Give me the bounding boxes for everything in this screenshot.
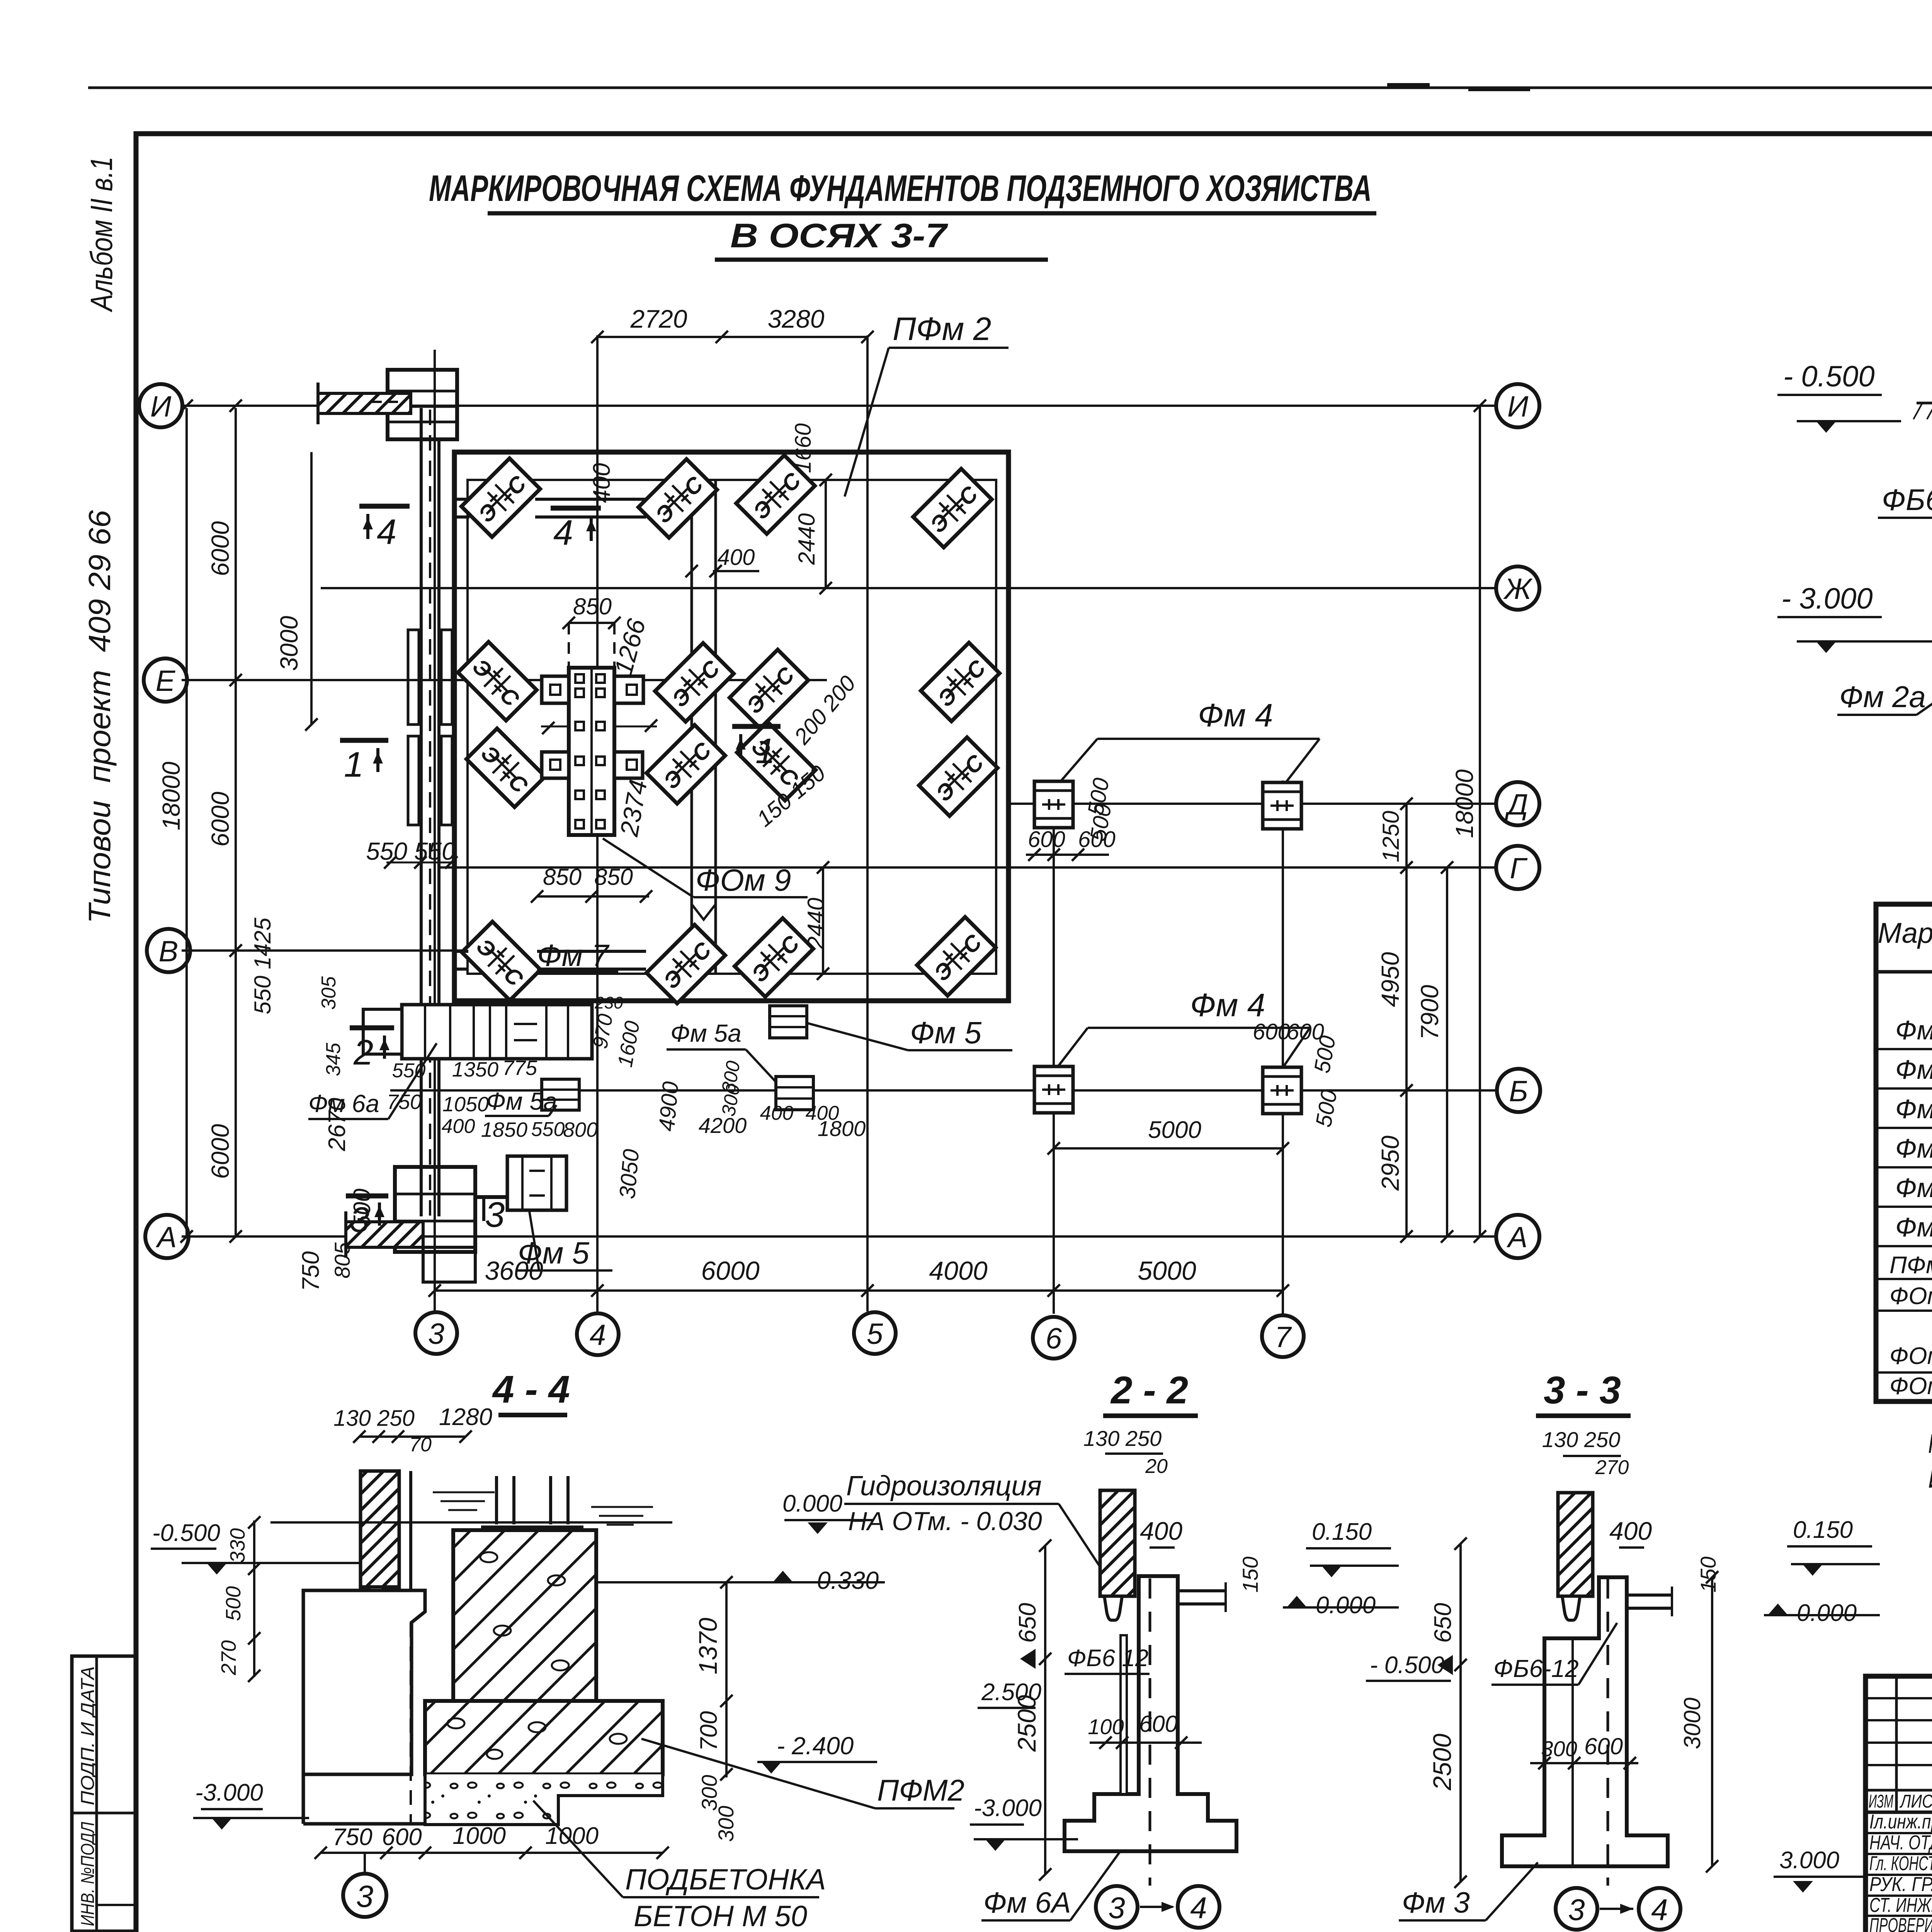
svg-text:Фм 5а: Фм 5а <box>670 1019 742 1047</box>
svg-text:3.000: 3.000 <box>1779 1847 1839 1874</box>
svg-text:20: 20 <box>1145 1455 1168 1478</box>
svg-text:18000: 18000 <box>157 762 185 830</box>
svg-text:750: 750 <box>387 1090 422 1114</box>
svg-text:0.000: 0.000 <box>782 1490 842 1517</box>
left margin stamp <box>72 1656 136 1931</box>
svg-text:300: 300 <box>714 1806 738 1842</box>
pedestal <box>1502 1577 1668 1866</box>
top dimension chain <box>597 336 867 338</box>
svg-text:850: 850 <box>543 864 582 890</box>
svg-text:7: 7 <box>1275 1321 1292 1354</box>
svg-text:-3.000: -3.000 <box>195 1779 263 1806</box>
svg-text:700: 700 <box>696 1711 722 1751</box>
svg-text:6000: 6000 <box>206 791 234 847</box>
Fm5 lower square <box>507 1156 566 1210</box>
svg-text:100: 100 <box>1088 1714 1124 1739</box>
svg-text:130 250: 130 250 <box>1542 1427 1620 1452</box>
axis circles left <box>139 384 190 1258</box>
svg-text:4000: 4000 <box>929 1256 987 1286</box>
svg-text:Б: Б <box>1509 1075 1528 1108</box>
name rows <box>1866 1832 1932 1834</box>
Fm5a small squares <box>542 1079 579 1110</box>
svg-text:150: 150 <box>1238 1556 1262 1592</box>
svg-text:Марка: Марка <box>1878 917 1932 949</box>
svg-text:1370: 1370 <box>694 1617 722 1674</box>
svg-text:ФБ6-11: ФБ6-11 <box>1882 483 1932 517</box>
svg-text:Ж: Ж <box>1503 573 1533 605</box>
svg-text:Гидроизоляция: Гидроизоляция <box>846 1471 1042 1502</box>
svg-text:270: 270 <box>1595 1456 1629 1479</box>
svg-text:В: В <box>159 935 179 968</box>
svg-text:3: 3 <box>485 1195 505 1235</box>
svg-text:- 0.500: - 0.500 <box>1370 1652 1444 1679</box>
rail column <box>1558 1493 1593 1596</box>
svg-text:2720: 2720 <box>630 304 687 333</box>
svg-text:Фм 4: Фм 4 <box>1895 1015 1932 1045</box>
left pedestal edge-on <box>303 1590 425 1774</box>
svg-text:ФОм 9: ФОм 9 <box>1889 1283 1932 1310</box>
svg-text:2.500: 2.500 <box>981 1679 1041 1706</box>
svg-text:3: 3 <box>1568 1893 1585 1927</box>
svg-text:270: 270 <box>217 1640 240 1675</box>
column circles bottom <box>415 1312 1304 1359</box>
svg-text:1: 1 <box>344 745 364 784</box>
svg-text:В ОСЯХ 3-7: В ОСЯХ 3-7 <box>730 216 949 255</box>
svg-text:600: 600 <box>1253 1019 1290 1044</box>
svg-text:Фм 6: Фм 6 <box>1895 1133 1932 1163</box>
header bottom <box>1876 970 1932 974</box>
svg-text:2 - 2: 2 - 2 <box>1110 1369 1188 1412</box>
svg-text:300: 300 <box>697 1775 721 1811</box>
bottom dimension chain <box>435 1289 1283 1292</box>
svg-text:400: 400 <box>588 463 615 503</box>
strip foundation bands between rotated blocks <box>535 498 646 501</box>
svg-text:2500: 2500 <box>1428 1733 1456 1791</box>
svg-text:А: А <box>1507 1221 1528 1254</box>
trench along column 3 <box>420 408 423 1216</box>
podbetonka step <box>425 1774 663 1825</box>
pedestal <box>1065 1576 1236 1851</box>
svg-text:Д: Д <box>1504 788 1528 821</box>
svg-text:Фм 6А: Фм 6А <box>1895 1173 1932 1203</box>
svg-text:4950: 4950 <box>1376 952 1404 1007</box>
right dimension chains <box>1405 804 1408 1236</box>
svg-text:6: 6 <box>1046 1322 1062 1355</box>
svg-text:- 0.500: - 0.500 <box>1783 360 1875 393</box>
svg-text:НАЧ. ОТД.: НАЧ. ОТД. <box>1869 1832 1932 1854</box>
svg-text:1660: 1660 <box>791 423 816 473</box>
svg-text:6000: 6000 <box>206 1124 234 1179</box>
rotated foundation blocks <box>461 458 540 537</box>
svg-text:550 1425: 550 1425 <box>250 917 276 1014</box>
svg-text:И: И <box>150 390 172 423</box>
svg-text:5000: 5000 <box>1148 1117 1201 1143</box>
svg-text:1000: 1000 <box>545 1823 599 1849</box>
svg-text:650: 650 <box>1014 1603 1041 1643</box>
svg-text:1050: 1050 <box>442 1093 489 1116</box>
svg-text:ПОДП. И ДАТА: ПОДП. И ДАТА <box>78 1666 98 1805</box>
svg-text:2440: 2440 <box>794 513 820 565</box>
foundation plate PFm2 <box>454 452 1009 1001</box>
svg-text:РУК. ГР.: РУК. ГР. <box>1869 1873 1932 1896</box>
rail block at axis I (top-left) <box>388 370 457 439</box>
svg-text:3 - 3: 3 - 3 <box>1544 1369 1621 1412</box>
svg-text:1250: 1250 <box>1378 811 1404 862</box>
svg-text:ИЗМ: ИЗМ <box>1869 1791 1893 1812</box>
svg-text:ФОм 10: ФОм 10 <box>1889 1343 1932 1369</box>
svg-text:400: 400 <box>1609 1517 1652 1545</box>
svg-text:МАРКИРОВОЧНАЯ СХЕМА ФУНДАМЕНТО: МАРКИРОВОЧНАЯ СХЕМА ФУНДАМЕНТОВ ПОДЗЕМНО… <box>429 168 1372 209</box>
svg-text:И: И <box>1507 390 1529 423</box>
svg-text:400: 400 <box>760 1102 794 1124</box>
svg-text:ФБ6 12: ФБ6 12 <box>1067 1645 1148 1672</box>
svg-text:850: 850 <box>573 594 612 619</box>
svg-text:3000: 3000 <box>275 616 303 671</box>
svg-text:305: 305 <box>318 976 340 1010</box>
svg-text:Фм 5а: Фм 5а <box>486 1087 557 1115</box>
svg-text:4 - 4: 4 - 4 <box>492 1368 570 1411</box>
svg-text:3280: 3280 <box>768 304 825 333</box>
svg-text:4900: 4900 <box>654 1080 684 1132</box>
svg-text:550: 550 <box>392 1060 426 1082</box>
left dimension chains <box>235 408 237 1236</box>
svg-text:ИНВ. №ПОДЛ: ИНВ. №ПОДЛ <box>78 1822 98 1926</box>
svg-text:СТ. ИНЖ.: СТ. ИНЖ. <box>1869 1894 1932 1917</box>
svg-text:Фм 4: Фм 4 <box>1198 697 1273 733</box>
FOm9 central machine foundation <box>569 668 614 835</box>
axis circles right <box>1496 384 1540 1258</box>
550 550 dim line at trench <box>386 862 456 864</box>
svg-text:0.000: 0.000 <box>1797 1600 1857 1626</box>
svg-text:- 2.400: - 2.400 <box>777 1732 854 1760</box>
data rows <box>1895 1015 1932 1244</box>
svg-text:775: 775 <box>502 1056 537 1080</box>
svg-text:Фм 6А: Фм 6А <box>983 1886 1071 1919</box>
svg-text:Фм 7: Фм 7 <box>537 938 610 973</box>
svg-text:0.000: 0.000 <box>1316 1592 1376 1619</box>
svg-text:2: 2 <box>353 1033 373 1072</box>
rail block at axis A (bottom-left) <box>395 1167 475 1252</box>
svg-text:ФБ6-12: ФБ6-12 <box>1493 1655 1579 1682</box>
svg-text:-3.000: -3.000 <box>974 1795 1042 1821</box>
svg-text:Альбом II в.1: Альбом II в.1 <box>84 156 119 312</box>
svg-text:ФОм 11: ФОм 11 <box>1889 1373 1932 1400</box>
svg-text:600: 600 <box>382 1824 422 1850</box>
axis lines horizontal <box>182 405 1496 407</box>
svg-text:130 250: 130 250 <box>1083 1426 1162 1451</box>
rail column <box>1100 1490 1135 1596</box>
svg-text:1000: 1000 <box>452 1823 506 1849</box>
svg-text:2950: 2950 <box>1376 1135 1404 1191</box>
trim line top <box>88 87 1932 89</box>
svg-text:1850: 1850 <box>481 1118 527 1141</box>
svg-text:850: 850 <box>594 864 633 890</box>
svg-text:5000: 5000 <box>1138 1256 1196 1286</box>
svg-text:Под ФУНДАМЕНТНОИ ПЛИТОИ ВЫП: Под ФУНДАМЕНТНОИ ПЛИТОИ ВЫПОЛНИТЬ БЕТОНН… <box>1928 1429 1932 1459</box>
svg-text:1: 1 <box>755 731 775 771</box>
svg-text:НА ОТм. - 0.030: НА ОТм. - 0.030 <box>848 1507 1042 1536</box>
svg-text:18000: 18000 <box>1451 769 1478 838</box>
svg-text:650: 650 <box>1430 1603 1456 1643</box>
svg-text:Іл.инж.пр.: Іл.инж.пр. <box>1869 1811 1932 1833</box>
svg-text:Фм 3: Фм 3 <box>1402 1886 1470 1919</box>
svg-text:6000: 6000 <box>206 521 234 576</box>
svg-text:1350: 1350 <box>452 1058 498 1081</box>
column lines vertical <box>434 350 436 1311</box>
svg-text:Фм 5: Фм 5 <box>910 1015 982 1050</box>
svg-text:345: 345 <box>322 1043 345 1077</box>
svg-text:ПФм 2: ПФм 2 <box>1889 1252 1932 1279</box>
svg-text:70: 70 <box>409 1434 432 1456</box>
svg-text:230: 230 <box>594 993 623 1012</box>
svg-text:Фм 7: Фм 7 <box>1895 1212 1932 1242</box>
svg-text:БЕТОН М 50: БЕТОН М 50 <box>634 1900 807 1932</box>
svg-text:0.150: 0.150 <box>1312 1519 1372 1545</box>
svg-text:- 0.330: - 0.330 <box>802 1566 879 1594</box>
svg-text:3: 3 <box>1108 1891 1125 1925</box>
svg-text:400: 400 <box>442 1115 475 1138</box>
ground line left <box>1917 402 1932 405</box>
svg-text:7900: 7900 <box>1416 985 1444 1040</box>
svg-text:4: 4 <box>1190 1891 1207 1925</box>
svg-text:Е: Е <box>156 665 176 697</box>
water ripples <box>433 1492 653 1525</box>
svg-text:А: А <box>156 1221 177 1254</box>
svg-text:3: 3 <box>350 1200 369 1240</box>
svg-text:4: 4 <box>377 512 396 552</box>
column steel on top of block <box>495 1476 498 1524</box>
svg-text:600: 600 <box>1028 827 1065 852</box>
svg-text:330: 330 <box>226 1528 249 1563</box>
svg-text:0.150: 0.150 <box>1793 1517 1853 1543</box>
svg-text:130 250: 130 250 <box>333 1406 415 1431</box>
svg-text:750: 750 <box>298 1251 324 1291</box>
svg-text:600: 600 <box>1584 1733 1623 1759</box>
svg-text:Фм 5: Фм 5 <box>518 1236 590 1270</box>
svg-text:ПФМ2: ПФМ2 <box>877 1773 964 1807</box>
svg-text:500: 500 <box>222 1586 245 1621</box>
svg-text:800: 800 <box>563 1118 598 1141</box>
small dim line through FOm9 at E level <box>541 726 657 728</box>
svg-text:600: 600 <box>1139 1711 1178 1737</box>
svg-text:ПОДБЕТОНКА: ПОДБЕТОНКА <box>625 1863 826 1896</box>
svg-text:ФОм 9: ФОм 9 <box>696 863 791 897</box>
svg-text:3000: 3000 <box>1679 1697 1705 1749</box>
svg-text:Фм 6а: Фм 6а <box>308 1090 379 1117</box>
svg-text:Фм 5: Фм 5 <box>1895 1054 1932 1085</box>
svg-text:Типовои проект 409 29 66: Типовои проект 409 29 66 <box>82 510 117 923</box>
svg-text:4: 4 <box>590 1319 606 1352</box>
svg-text:3: 3 <box>428 1318 444 1350</box>
svg-text:Фм 4: Фм 4 <box>1190 987 1265 1023</box>
svg-text:150: 150 <box>1696 1556 1720 1592</box>
svg-text:ПРОВЕРИЛ: ПРОВЕРИЛ <box>1869 1914 1932 1932</box>
svg-text:ИЗ БЕТОНА М 200 ТОЛщинои: ИЗ БЕТОНА М 200 ТОЛщинои 100 мм <box>1928 1463 1932 1493</box>
svg-text:550 550: 550 550 <box>366 837 456 865</box>
rail column <box>361 1471 399 1587</box>
channel through plate <box>690 480 693 974</box>
svg-text:ПФм 2: ПФм 2 <box>893 311 991 347</box>
svg-text:Фм 5А: Фм 5А <box>1895 1094 1932 1124</box>
svg-text:4: 4 <box>1651 1893 1668 1927</box>
cluster strip between V and B axes <box>402 1005 592 1059</box>
revision grid left <box>1895 1676 1898 1812</box>
svg-text:300: 300 <box>1541 1736 1577 1761</box>
svg-text:-0.500: -0.500 <box>152 1520 220 1546</box>
svg-text:4200: 4200 <box>699 1113 747 1138</box>
svg-text:3: 3 <box>356 1879 374 1913</box>
svg-text:ЛИСТ: ЛИСТ <box>1900 1791 1932 1812</box>
svg-text:6000: 6000 <box>701 1256 759 1286</box>
svg-text:2440: 2440 <box>803 898 829 949</box>
svg-text:4: 4 <box>553 513 573 553</box>
svg-text:3050: 3050 <box>615 1148 644 1200</box>
svg-text:Гл. КОНСТР: Гл. КОНСТР <box>1869 1852 1932 1875</box>
svg-text:Г: Г <box>1510 852 1528 885</box>
svg-text:550: 550 <box>531 1118 565 1141</box>
svg-text:400: 400 <box>718 545 755 570</box>
svg-text:5: 5 <box>867 1318 883 1350</box>
svg-text:400: 400 <box>806 1102 839 1124</box>
svg-text:400: 400 <box>1140 1517 1182 1545</box>
big hatched block PFm2 in section <box>453 1530 596 1701</box>
FM4 squares <box>1034 781 1073 828</box>
svg-text:Фм 2а: Фм 2а <box>1839 680 1926 714</box>
svg-text:- 3.000: - 3.000 <box>1781 582 1873 615</box>
svg-text:1280: 1280 <box>439 1404 492 1430</box>
svg-text:750: 750 <box>332 1824 372 1850</box>
section marks <box>340 506 781 1240</box>
